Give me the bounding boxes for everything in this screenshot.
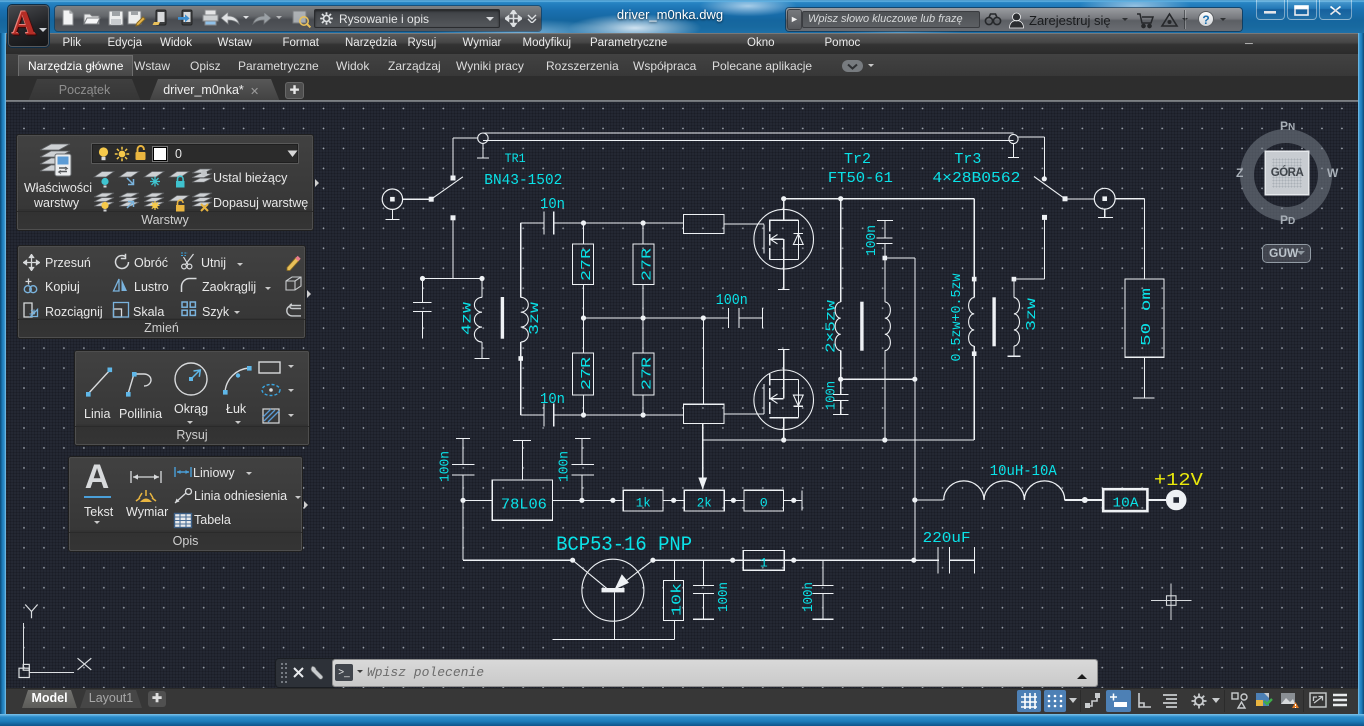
label Tr2 — [844, 151, 871, 168]
connector J3 +12V — [1166, 490, 1186, 510]
label TR1 — [505, 151, 526, 166]
transformer Tr3 core — [992, 297, 995, 346]
label 2x5zw — [824, 299, 840, 353]
wire middle rail — [584, 317, 729, 319]
wire R10 to stub — [783, 499, 802, 501]
svg-text:100n: 100n — [864, 225, 880, 256]
fuse F1 10A — [1103, 489, 1147, 511]
wire vertical bus x915 — [914, 258, 916, 560]
label 10n lower — [540, 391, 565, 408]
wire R8 to ground stub — [1133, 357, 1154, 398]
terminal circle left end of bus (TR1 tap) — [477, 133, 489, 158]
regulator U1 78L06 — [492, 480, 552, 520]
resistor R9 1k — [623, 490, 663, 511]
transformer Tr2 primary 2x5zw — [835, 199, 841, 380]
node Tr3 primary top — [972, 277, 977, 282]
junction Q3 right — [650, 558, 655, 563]
resistor R8 50 om — [1125, 279, 1164, 357]
svg-text:27R: 27R — [640, 356, 656, 390]
switch S2 blade — [1034, 177, 1065, 199]
junction bus tap — [911, 558, 916, 563]
label 100n Tr2 bottom — [824, 381, 840, 410]
svg-text:27R: 27R — [640, 247, 656, 281]
svg-text:100n: 100n — [801, 582, 817, 612]
capacitor C4 100n middle — [728, 308, 762, 328]
svg-text:100n: 100n — [716, 582, 732, 612]
capacitor C3 10n lower — [521, 403, 584, 426]
svg-text:1k: 1k — [636, 496, 651, 511]
junction dot 16 — [610, 498, 615, 503]
svg-text:10uH-10A: 10uH-10A — [990, 463, 1057, 480]
junction dot 5 — [581, 412, 586, 417]
svg-text:3zw: 3zw — [1024, 297, 1040, 331]
switch S1 blade — [431, 177, 463, 199]
junction dot 1 — [420, 276, 425, 281]
capacitor C10 100n — [812, 560, 833, 619]
svg-text:TR1: TR1 — [505, 151, 526, 166]
resistor R2 27R — [633, 223, 656, 318]
wire middle rail to R6 — [702, 318, 704, 404]
label 10uH-10A — [990, 463, 1057, 480]
label 100n Tr2 top — [864, 225, 880, 256]
capacitor C8 100n — [572, 439, 594, 501]
label BN43-1502 — [484, 172, 562, 189]
wire Q2 source stub — [778, 349, 790, 379]
svg-text:220uF: 220uF — [923, 530, 971, 547]
label FT50-61 — [828, 170, 893, 187]
node switch S1 upper contact — [451, 176, 456, 181]
wire emitter rail — [652, 559, 939, 561]
node switch S1 lower contact — [451, 215, 456, 220]
wire rail B — [841, 378, 915, 380]
label 4zw — [461, 302, 476, 335]
wire rail A corner down — [973, 199, 975, 279]
terminal stub — [801, 491, 803, 511]
svg-text:4zw: 4zw — [461, 302, 476, 335]
junction dot 12 — [838, 377, 843, 382]
label 100n right of U1 — [557, 451, 573, 482]
label 220uF — [923, 530, 971, 547]
junction dot 20 — [570, 558, 575, 563]
label 100n left — [438, 451, 454, 482]
wire Q1 source stub — [778, 259, 790, 289]
svg-text:Tr3: Tr3 — [954, 151, 981, 168]
node Tr2 right winding top — [883, 256, 888, 261]
svg-text:100n: 100n — [557, 451, 573, 482]
label 100n B — [801, 582, 817, 612]
label 3zw — [528, 302, 543, 335]
junction dot 18 — [731, 498, 736, 503]
switch S2 pivot terminal — [1063, 196, 1068, 201]
junction dot 22 — [791, 558, 796, 563]
svg-text:0.5zw+0.5zw: 0.5zw+0.5zw — [949, 273, 965, 362]
junction dot 7 — [581, 315, 586, 320]
transformer TR1 primary winding 4zw — [474, 279, 489, 359]
junction dot 15 — [579, 498, 584, 503]
inductor L1 10uH-10A — [944, 481, 1065, 500]
svg-text:0: 0 — [760, 496, 768, 511]
node switch S2 lower contact — [1042, 215, 1047, 220]
UCS icon — [19, 605, 91, 678]
crosshair cursor — [1151, 583, 1191, 620]
junction dot 3 — [581, 220, 586, 225]
junction dot 6 — [641, 412, 646, 417]
transistor Q2 MOSFET lower — [754, 370, 814, 440]
junction dot 4 — [641, 220, 646, 225]
wire bus to right switch contact — [1018, 137, 1044, 179]
wire top rail — [584, 222, 684, 224]
label BCP53-16 PNP — [556, 534, 692, 557]
diode D1 body diode Q1 — [793, 220, 803, 259]
capacitor C9 100n — [693, 560, 714, 619]
wire C5 node to bus — [885, 257, 915, 259]
svg-text:50 om: 50 om — [1140, 288, 1155, 346]
resistor R10 0 — [744, 490, 783, 511]
label 0.5zw+0.5zw — [949, 273, 965, 362]
junction dot 8 — [641, 315, 646, 320]
junction dot 23 — [912, 497, 917, 502]
label 100n middle — [716, 292, 748, 309]
svg-text:2k: 2k — [697, 496, 712, 511]
transformer TR1 core — [501, 297, 504, 339]
junction dot 2 — [479, 276, 484, 281]
svg-text:100n: 100n — [438, 451, 454, 482]
resistor R3 27R — [573, 318, 596, 415]
capacitor C5 100n — [876, 221, 893, 259]
wire S1 lower contact down to TR1 row — [452, 218, 454, 279]
wire R7-R10 — [724, 499, 744, 501]
junction dot 9 — [701, 315, 706, 320]
wire bus to L1 — [915, 499, 944, 501]
svg-text:10k: 10k — [670, 583, 686, 616]
transformer Tr2 core — [860, 302, 863, 351]
wire J2 to R8 — [1115, 199, 1144, 279]
capacitor C2 10n upper — [521, 211, 584, 234]
svg-text:10A: 10A — [1113, 496, 1140, 512]
wire R6 to lower rail link — [702, 424, 704, 441]
svg-text:+12V: +12V — [1154, 471, 1203, 491]
arrow to R7 2k — [698, 440, 707, 490]
svg-text:78L06: 78L06 — [501, 497, 547, 514]
connector J2 (output) — [1094, 188, 1115, 217]
junction dot 14 — [460, 498, 465, 503]
resistor R12 1 — [743, 551, 784, 571]
wire top bus lower line — [483, 140, 1014, 142]
wire Tr3 primary bottom to rail C — [973, 354, 975, 440]
svg-text:BN43-1502: BN43-1502 — [484, 172, 562, 189]
label Tr3 — [954, 151, 981, 168]
svg-text:27R: 27R — [579, 247, 595, 281]
transistor Q3 BCP53 — [573, 559, 653, 639]
svg-text:1: 1 — [760, 556, 768, 571]
resistor R1 27R — [573, 223, 596, 318]
junction dot 19 — [791, 498, 796, 503]
svg-text:100n: 100n — [824, 381, 840, 410]
node Tr3 secondary top — [1012, 277, 1017, 282]
transformer Tr3 primary 0.5zw+0.5zw — [969, 279, 975, 354]
capacitor C1 (input) — [413, 279, 432, 339]
connector J1 (left input) — [382, 189, 402, 220]
label 3zw Tr3 — [1024, 297, 1040, 331]
junction dot 21 — [730, 558, 735, 563]
svg-text:4×28B0562: 4×28B0562 — [932, 170, 1020, 187]
svg-text:2×5zw: 2×5zw — [824, 299, 840, 353]
junction dot 10 — [838, 196, 843, 201]
label +12V — [1154, 471, 1203, 491]
node Tr3 primary bottom — [972, 351, 977, 356]
svg-text:3zw: 3zw — [528, 302, 543, 335]
junction dot 17 — [671, 498, 676, 503]
junction Q1 drain — [781, 196, 786, 201]
svg-text:Tr2: Tr2 — [844, 151, 871, 168]
resistor R7 2k — [684, 490, 724, 511]
wire U1 out rail — [553, 499, 624, 501]
transistor Q1 MOSFET upper — [754, 199, 814, 269]
transformer Tr3 secondary 3zw — [1007, 279, 1020, 356]
capacitor C7 100n — [452, 439, 474, 501]
wire C7 node down — [463, 500, 573, 560]
switch S1 pivot terminal — [429, 197, 434, 202]
junction Q2 drain — [781, 437, 786, 442]
wire TR1 top row — [423, 278, 483, 280]
resistor R4 27R — [633, 318, 656, 415]
wire C7 to U1 — [463, 499, 492, 501]
label 100n A — [716, 582, 732, 612]
capacitor C6 100n — [833, 379, 848, 414]
svg-text:100n: 100n — [716, 292, 748, 309]
wire S2 to J2 — [1065, 198, 1094, 200]
svg-text:FT50-61: FT50-61 — [828, 170, 893, 187]
wire J1 to switch pivot — [403, 198, 432, 200]
wire U1 top pin — [513, 440, 531, 480]
wire L1 to F1 — [1065, 499, 1104, 501]
resistor R6 gate lower — [684, 404, 764, 423]
wire bottom rail — [584, 414, 684, 416]
junction dot 11 — [882, 437, 887, 442]
wire Tr3 secondary top link — [1014, 217, 1045, 279]
wire bus to left switch contact — [453, 138, 478, 178]
junction dot 24 — [1082, 497, 1088, 503]
wire lower rail C — [703, 439, 975, 441]
wire top bus upper line — [483, 132, 1014, 134]
wire drain rail A — [784, 198, 975, 200]
label 10n upper — [540, 196, 565, 213]
resistor R5 gate upper — [684, 215, 764, 234]
wire F1 to J3 — [1147, 499, 1166, 501]
node switch S2 upper contact — [1042, 176, 1047, 181]
svg-text:BCP53-16 PNP: BCP53-16 PNP — [556, 534, 692, 557]
label 4x28B0562 — [932, 170, 1020, 187]
transformer TR1 secondary winding 3zw — [518, 223, 528, 415]
wire R9-R7 — [663, 499, 684, 501]
svg-text:27R: 27R — [579, 356, 595, 390]
resistor R11 10k — [664, 560, 686, 639]
junction dot 13 — [912, 377, 917, 382]
capacitor C11 220uF — [938, 547, 974, 574]
transformer Tr2 secondary — [885, 258, 891, 440]
wire Q3 ground rail — [553, 638, 675, 640]
terminal circle right end of bus (Tr3 tap) — [1008, 134, 1019, 157]
diode D2 body diode Q2 — [793, 379, 803, 417]
svg-text:10n: 10n — [540, 196, 565, 213]
